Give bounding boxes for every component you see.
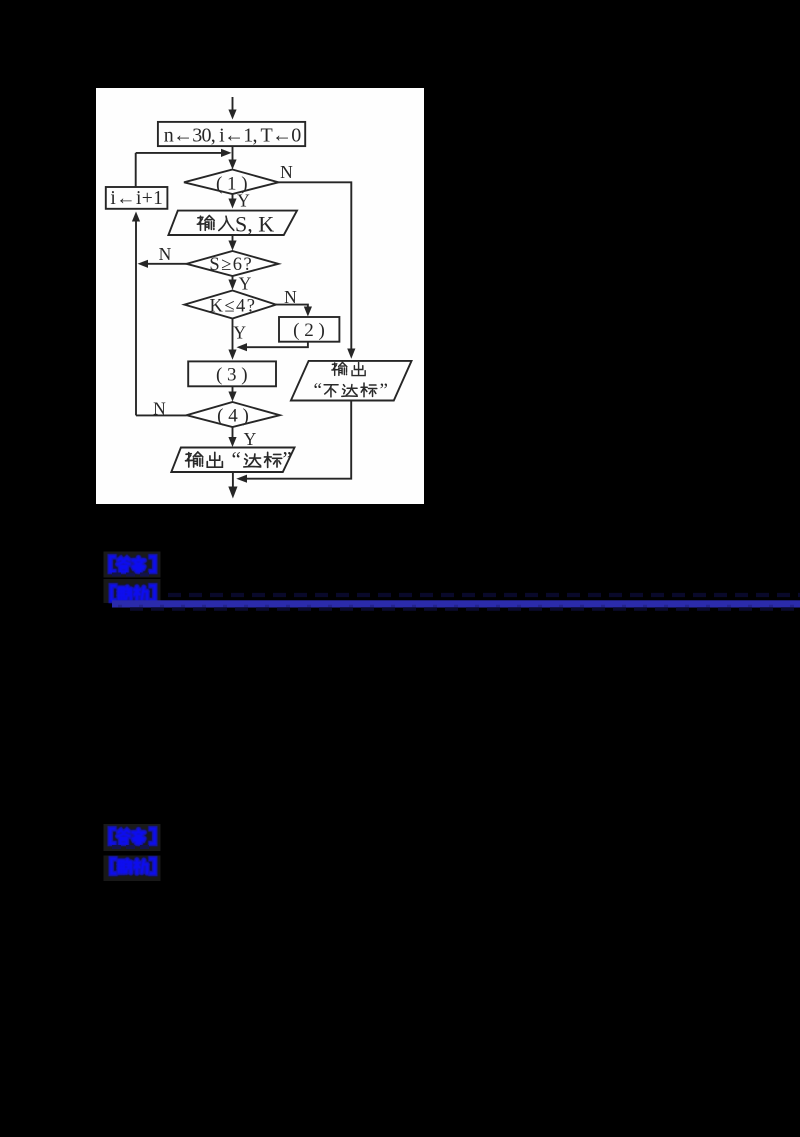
blue horizontal rule — [112, 600, 800, 607]
svg-text:Y: Y — [239, 274, 252, 294]
wire: diamond 1 N branch right and down to output parallelogram — [279, 182, 356, 358]
parallelogram: 输入S, K — [168, 211, 297, 235]
blue label 【答案】 first — [110, 557, 154, 572]
dark ghost dashes below rule — [130, 607, 800, 611]
wire: diamond 1 Y branch down to input parallelogram — [228, 194, 236, 209]
CJK glyphs drawn as strokes — [186, 216, 377, 468]
process box: n←30, i←1, T←0 — [158, 122, 305, 146]
decision diamond (4) — [187, 402, 280, 427]
parallelogram: 输出“达标” — [171, 448, 294, 473]
glyph: 入 of 输入 — [219, 216, 234, 230]
glyph: 出 of 输出达标 — [207, 452, 222, 467]
wire: loop junction horizontal into main line — [136, 149, 232, 157]
wire: S≥6 Y branch down to diamond K≤4 — [228, 276, 236, 290]
svg-text:S≥6?: S≥6? — [209, 255, 253, 275]
wire: init box to diamond 1 — [228, 146, 236, 169]
wire: left loop vertical from i←i+1 box top — [135, 153, 137, 187]
svg-text:n←30, i←1, T←0: n←30, i←1, T←0 — [164, 125, 302, 147]
svg-text:Y: Y — [233, 322, 246, 342]
wire: diamond 4 Y branch down to output parallelogram — [228, 427, 236, 447]
ghost descender row under first 答案 — [112, 573, 154, 577]
wire: long left vertical up into i←i+1 box bottom — [132, 212, 140, 416]
wire: box (3) to diamond (4) — [228, 386, 236, 401]
svg-text:( 2 ): ( 2 ) — [293, 320, 325, 341]
process box (3) — [188, 361, 276, 386]
svg-text:N: N — [159, 244, 172, 264]
halo behind 【答案】 first — [104, 552, 161, 578]
white flowchart panel — [96, 88, 424, 504]
glyph: 标 of 不达标 — [361, 383, 377, 397]
svg-text:“: “ — [232, 447, 241, 471]
texts — [110, 125, 388, 472]
blue label 【答案】 second — [110, 829, 154, 844]
blue annotation section — [104, 552, 800, 882]
halo behind 【解析】 second — [104, 856, 161, 882]
svg-text:( 4 ): ( 4 ) — [217, 406, 249, 427]
svg-text:“: “ — [314, 380, 322, 401]
wire: S≥6 N branch left into loop line — [138, 260, 187, 268]
glyph: 出 of 不达标 line1 — [352, 363, 365, 376]
decision diamond K≤4? — [185, 291, 277, 319]
halo behind 【答案】 second — [104, 824, 161, 851]
entry wire (top arrow into init box) — [228, 97, 236, 120]
svg-text:i←i+1: i←i+1 — [110, 188, 163, 209]
wire: input parallelogram to diamond S≥6 — [228, 235, 236, 251]
decision diamond (1) — [184, 170, 279, 195]
dark ghost dashes above rule — [168, 593, 800, 597]
wire: K≤4 Y branch down to box (3) — [228, 319, 236, 360]
process box: i←i+1 — [106, 187, 168, 209]
glyph: 标 of 达标 — [264, 452, 281, 467]
ghost descender row under second 答案 — [112, 845, 154, 849]
exit wire: bottom arrow — [228, 472, 237, 499]
blue label 【解析】 first — [111, 586, 154, 601]
glyph: 不 of 不达标 — [324, 385, 338, 397]
svg-text:Y: Y — [244, 429, 257, 449]
process box (2) — [279, 317, 339, 342]
svg-text:”: ” — [380, 380, 388, 401]
glyph: 达 of 达标 — [244, 454, 261, 467]
svg-text:N: N — [153, 399, 166, 419]
svg-text:( 3 ): ( 3 ) — [216, 364, 248, 385]
decision diamond S≥6? — [187, 251, 279, 276]
glyph: 输 of 输出达标 — [186, 452, 203, 467]
wire: K≤4 N branch right and down into box (2) — [276, 305, 312, 317]
glyph: 输 of 不达标 line1 — [332, 362, 347, 375]
glyph: 输 of 输入 — [197, 216, 214, 231]
svg-text:N: N — [280, 162, 293, 182]
wire: diamond 4 N branch left to loop vertical — [136, 414, 187, 416]
svg-text:S, K: S, K — [235, 211, 274, 236]
svg-text:”: ” — [283, 447, 292, 471]
glyph: 达 of 不达标 — [342, 384, 357, 396]
svg-text:N: N — [284, 287, 297, 307]
parallelogram: 输出“不达标” — [291, 361, 412, 401]
svg-text:K≤4?: K≤4? — [210, 297, 257, 317]
svg-text:Y: Y — [237, 191, 250, 211]
scallop darker notches on rule — [118, 605, 800, 608]
wire: right line from 不达标 down and left join — [236, 401, 351, 483]
halo behind 【解析】 first — [104, 579, 161, 603]
wire: box (2) return to main line — [237, 342, 308, 352]
blue label 【解析】 second — [111, 859, 154, 874]
